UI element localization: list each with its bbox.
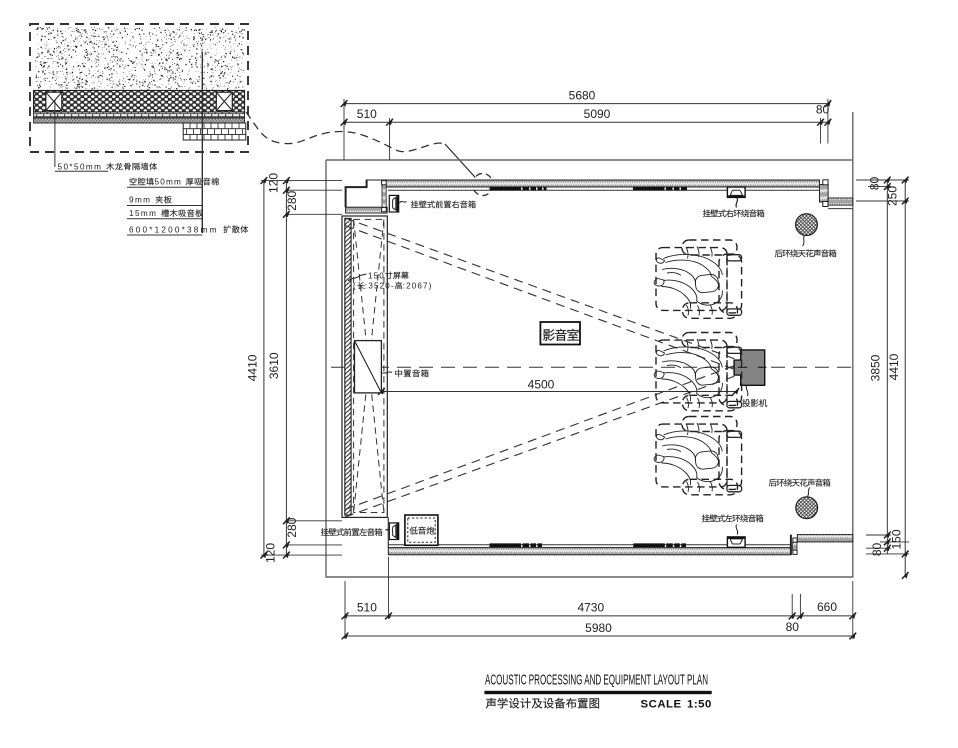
svg-text:ACOUSTIC PROCESSING AND EQUIPM: ACOUSTIC PROCESSING AND EQUIPMENT LAYOUT… — [485, 673, 708, 689]
dim 5980 — [345, 635, 853, 637]
svg-text:80: 80 — [816, 103, 830, 117]
dim row 510 4730 660 — [345, 615, 853, 617]
svg-text:120: 120 — [264, 543, 278, 563]
room centerline — [331, 366, 852, 368]
subwoofer box 低音炮 — [405, 515, 438, 545]
right surround speaker (top wall) — [727, 187, 745, 197]
svg-text:5090: 5090 — [584, 107, 611, 121]
svg-text:150: 150 — [368, 271, 385, 280]
acoustic panel marks top wall group 1 — [490, 187, 547, 191]
dim extension lines left — [261, 181, 342, 555]
projector 投影机 — [734, 350, 765, 385]
wood stud block left — [46, 92, 62, 110]
projection cone line upper B — [345, 226, 738, 371]
sound absorbing cotton layer — [34, 91, 245, 113]
svg-text:3850: 3850 — [869, 354, 883, 381]
svg-text:4500: 4500 — [528, 378, 555, 392]
svg-text:600*1200*38mm: 600*1200*38mm — [129, 225, 219, 234]
title underline bar — [484, 691, 711, 694]
title chinese — [486, 698, 496, 709]
bottom-right wall step — [791, 535, 853, 555]
dim chain right outer 250 4410 150 — [904, 180, 906, 576]
svg-text:50*50mm: 50*50mm — [58, 163, 103, 172]
dashed detail circle on wall — [473, 174, 493, 196]
centerline over projector — [738, 366, 767, 368]
screen size label — [348, 274, 367, 281]
svg-text:150: 150 — [889, 529, 903, 549]
dim 4500 — [378, 378, 739, 395]
dim 4410 left — [263, 181, 265, 555]
label 9mm plywood — [127, 205, 202, 207]
dim extension lines bottom — [345, 557, 853, 639]
top-left alcove — [346, 180, 388, 214]
dim chain right inner 80 3850 80 — [886, 180, 888, 554]
svg-text:3610: 3610 — [267, 352, 281, 379]
acoustic panel marks bottom wall group 2 — [633, 543, 686, 547]
rear ceiling speaker top — [796, 214, 818, 236]
projection cone line lower B — [345, 365, 738, 510]
svg-text:1:50: 1:50 — [687, 699, 712, 711]
seat row 1 — [654, 240, 741, 318]
leader line layers label — [201, 52, 203, 233]
top wall band — [383, 180, 820, 190]
svg-text:4410: 4410 — [887, 353, 901, 380]
dim extension lines top — [344, 99, 828, 160]
dim chain 120 280 3610 280 120 — [285, 181, 287, 555]
svg-text:4410: 4410 — [246, 354, 260, 381]
9mm plywood layer — [34, 112, 245, 118]
svg-text:5980: 5980 — [585, 621, 612, 635]
svg-text:9mm: 9mm — [129, 196, 151, 205]
diffuser brick layer — [183, 123, 246, 140]
center speaker label — [382, 372, 392, 373]
front left speaker — [389, 523, 398, 540]
right surround label — [736, 198, 737, 208]
screen (hatched strip) — [345, 218, 351, 515]
acoustic panel marks bottom wall group 1 — [490, 543, 543, 547]
left surround speaker (bottom wall) — [727, 537, 745, 547]
rear ceiling speaker bottom — [796, 497, 818, 519]
label 15mm slot wood — [127, 218, 202, 220]
center speaker box — [355, 341, 382, 393]
dim row 510 5090 80 — [344, 121, 828, 123]
wall section detail dashed border — [30, 24, 248, 152]
seat row 2 — [654, 333, 741, 411]
seat row 3 — [654, 417, 741, 495]
leader line stud label — [55, 100, 108, 171]
wood stud block right — [216, 92, 232, 110]
svg-text:80: 80 — [870, 543, 884, 557]
svg-text::2067): :2067) — [403, 282, 433, 291]
dim extension lines right — [856, 180, 909, 554]
svg-text:250: 250 — [886, 186, 900, 206]
svg-text:280: 280 — [285, 517, 299, 537]
room label box 影音室 — [540, 322, 580, 345]
screen zone dashed diagonals — [354, 219, 384, 512]
label diffuser — [127, 234, 202, 236]
svg-text:660: 660 — [817, 600, 837, 614]
wavy dashed leader to plan — [246, 112, 445, 152]
svg-text:80: 80 — [786, 620, 800, 634]
svg-text:15mm: 15mm — [129, 209, 157, 218]
front left speaker label — [386, 529, 390, 531]
svg-text:510: 510 — [357, 601, 377, 615]
bottom wall band — [388, 545, 791, 555]
slot wood absorber layer — [34, 118, 245, 123]
svg-text:280: 280 — [285, 190, 299, 210]
svg-text:50mm: 50mm — [155, 178, 183, 187]
svg-text:510: 510 — [357, 107, 377, 121]
screen wall face line to bottom wall — [387, 517, 389, 547]
label cavity cotton — [127, 186, 202, 188]
svg-text:SCALE: SCALE — [641, 699, 682, 711]
projector label — [746, 385, 748, 396]
svg-text:4730: 4730 — [577, 600, 604, 614]
acoustic panel marks top wall group 2 — [633, 187, 687, 191]
svg-text:80: 80 — [868, 177, 882, 191]
projection cone line lower A — [345, 376, 737, 518]
top-right wall jog — [820, 180, 853, 209]
screen zone dashed rect — [354, 219, 384, 512]
svg-text:5680: 5680 — [569, 89, 596, 103]
svg-text::3520-: :3520- — [365, 282, 395, 291]
dim 5680 — [344, 103, 828, 105]
left surround label — [736, 525, 738, 535]
svg-text:120: 120 — [267, 173, 281, 193]
projection cone line upper A — [345, 218, 737, 360]
front right speaker label — [400, 202, 407, 204]
screen wall outline — [342, 216, 387, 517]
svg-text:(: ( — [353, 282, 357, 291]
concrete stipple layer — [35, 27, 245, 90]
plan outer border — [326, 112, 853, 577]
front right speaker — [389, 195, 398, 212]
